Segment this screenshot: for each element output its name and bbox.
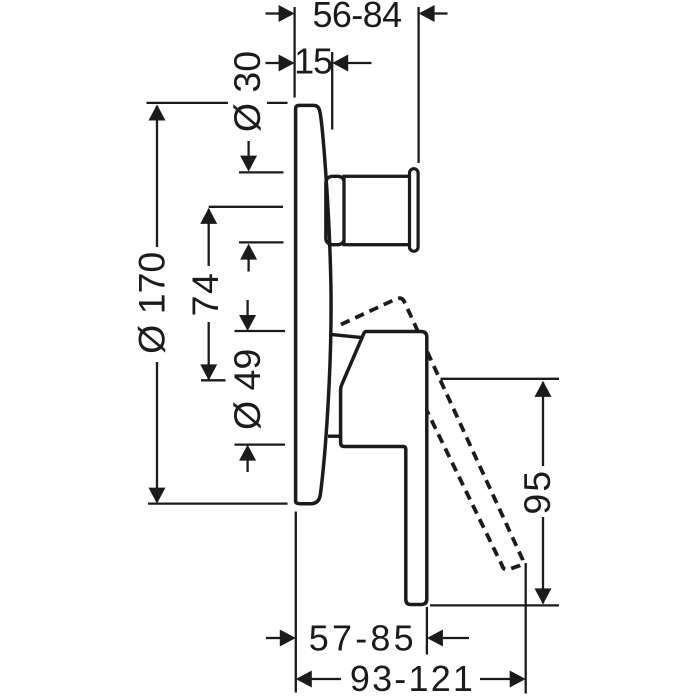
ext line: 15 right [331,52,333,130]
arrowheads [149,5,552,688]
tick Ø30 bottom [239,241,284,243]
dim 56-84 right tail [433,12,447,14]
dim Ø30 bottom tail [247,260,249,272]
arrow Ø49 top (down) [239,315,256,331]
svg-text:57-85: 57-85 [309,618,417,659]
ext line: plate left face (bottom) [295,512,297,693]
dim line Ø170 lower segment [156,362,158,502]
arrow 74 down [200,364,217,380]
dim Ø49 top tail [246,300,248,316]
tick Ø49 bottom [235,443,286,445]
tick Ø170 top (right of Ø30 text) [267,102,288,104]
arrow 74 up [200,208,217,224]
arrow 57-85 left [280,630,296,647]
svg-text:95: 95 [516,469,558,515]
ext line: knob face (56-84 right) [417,7,419,163]
arrow Ø170 down [149,488,166,504]
svg-text:74: 74 [184,272,226,317]
dimension lines group [147,7,560,694]
svg-text:15: 15 [294,41,332,82]
arrow Ø30 top (down) [240,156,257,172]
dim 93-121 left tail [312,678,342,680]
ext line 95 bottom (lever end) [430,604,559,606]
ext line: plate left face (top) [293,7,295,98]
dim line Ø170 upper segment [156,106,158,247]
tick Ø170 bottom [148,502,288,504]
dim 15 left tail [266,62,281,64]
handle lever (solid position) [341,332,427,605]
arrow 15 left [279,55,295,72]
dim line 74 upper segment [208,209,210,266]
tick 74 top (pivot axis of knob) [209,206,283,208]
dim 56-84 left tail [266,12,281,14]
svg-text:56-84: 56-84 [312,0,401,35]
dim 15 right tail [347,62,372,64]
tick Ø30 top [239,171,284,173]
lever base adapter (lower line) [328,435,343,438]
svg-text:93-121: 93-121 [350,658,475,699]
ext line 95 top (lever pivot axis) [441,378,560,380]
arrow 93-121 left [296,671,312,688]
arrow 56-84 right [419,5,435,22]
dashed lever (alternate position) [341,298,523,569]
dim line 95 lower segment [542,517,544,604]
arrow 15 right [332,55,348,72]
arrow Ø49 bottom (up) [239,445,256,461]
svg-text:Ø 49: Ø 49 [226,349,268,430]
arrow Ø170 up [149,105,166,121]
knob collar [326,176,345,244]
tick Ø170 top (left of Ø30 text) [147,102,229,104]
arrow 95 down [535,588,552,604]
dim 93-121 right tail [480,678,510,680]
dim line 95 upper segment [542,382,544,466]
ext line: lever grip face [426,607,428,655]
ext line: dashed lever end [525,563,527,694]
arrow 95 up [535,381,552,397]
knob cylinder [344,176,410,244]
tick 74 bottom [201,379,226,381]
arrow Ø30 bottom (up) [240,244,257,260]
svg-text:Ø 30: Ø 30 [226,51,268,132]
escutcheon plate (side view) [296,105,331,503]
knob end cap [410,169,419,252]
dim Ø49 bottom tail [246,460,248,472]
dim line 74 lower segment [208,322,210,380]
dim 57-85 right tail [443,637,469,639]
dim 57-85 left tail [266,637,281,639]
svg-text:Ø 170: Ø 170 [130,252,172,354]
dimension texts [130,0,557,699]
tick Ø49 top [235,330,286,332]
arrow 93-121 right [510,671,526,688]
arrow 56-84 left [279,5,295,22]
dim Ø30 top tail [247,141,249,156]
arrow 57-85 right [427,630,443,647]
lever base adapter (upper line) [330,334,363,337]
